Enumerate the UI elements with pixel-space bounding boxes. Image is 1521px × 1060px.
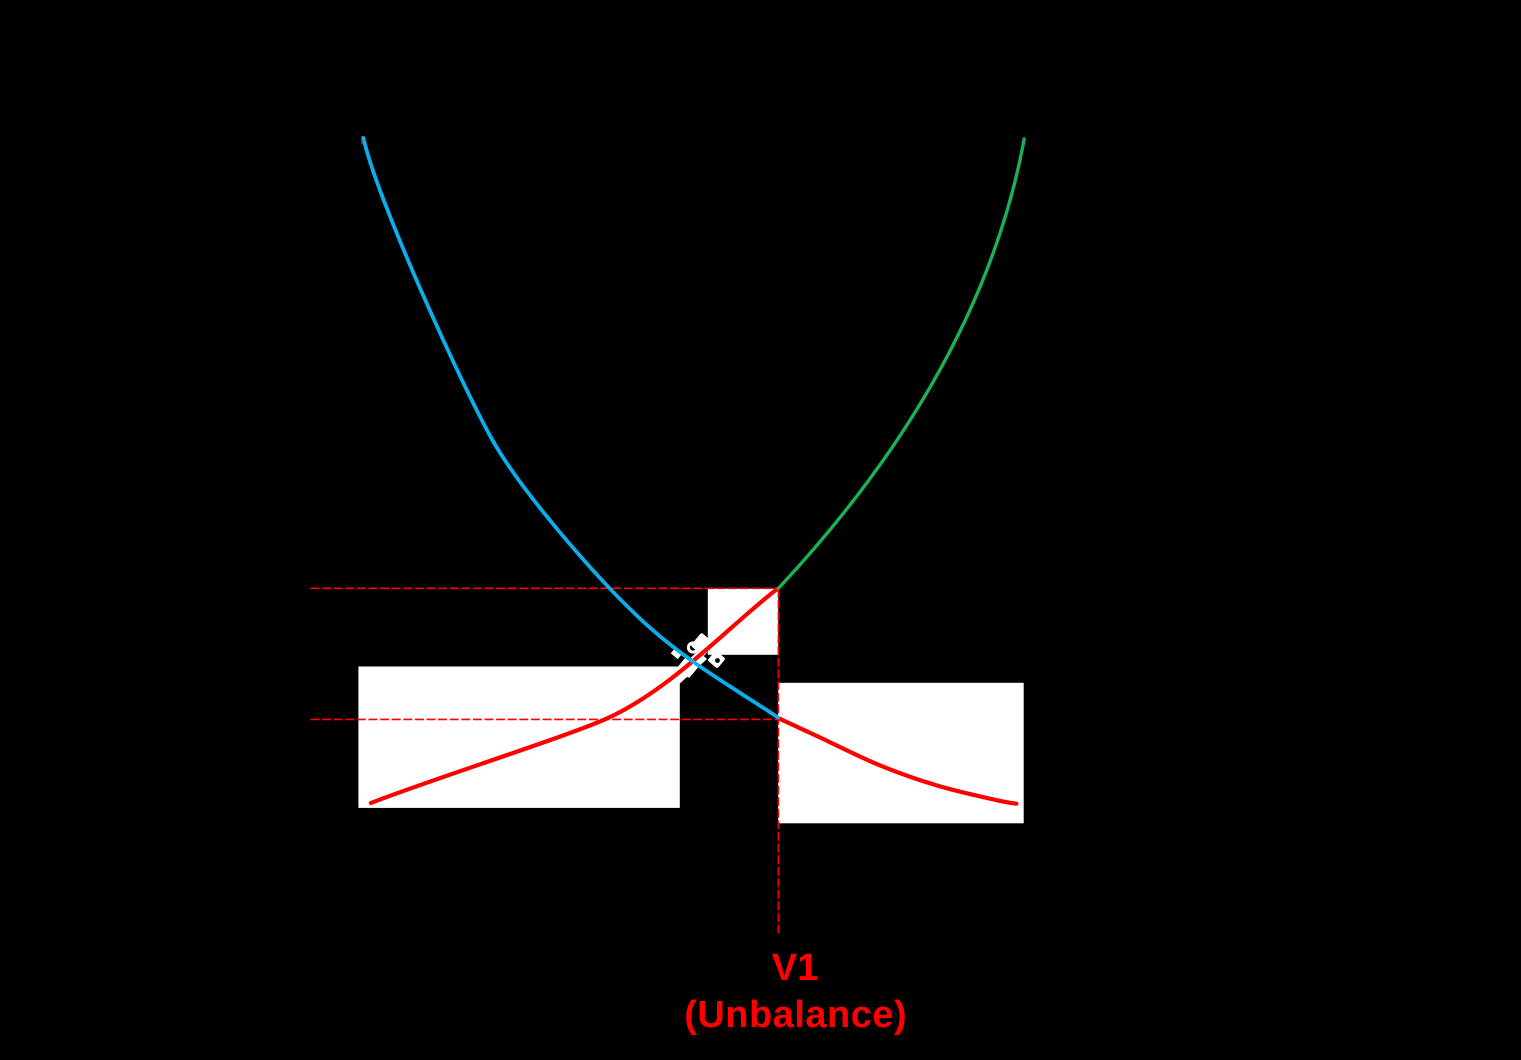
white label box small above intersection (Rect C) [708, 589, 778, 655]
red dashed horizontal line lower (y=719) [311, 718, 779, 720]
red dashed horizontal line upper (y=588) [311, 587, 779, 589]
red curve right branch (decaying after jump) [779, 718, 1017, 803]
red curve left branch (rising to peak) [371, 589, 778, 804]
small red tick at blue curve start [361, 136, 363, 145]
green curve (ascending from peak) [778, 139, 1024, 589]
white scribble (rotated text halo remnant) at curve crossing [669, 633, 726, 686]
white label box left (Rect A) [358, 667, 679, 808]
red dashed vertical line at V1 [777, 588, 779, 933]
white label box right (Rect B) [778, 683, 1024, 824]
svg-text:(Unbalance): (Unbalance) [684, 994, 907, 1036]
svg-text:V1: V1 [772, 947, 818, 989]
blue curve (descending) [364, 138, 779, 718]
